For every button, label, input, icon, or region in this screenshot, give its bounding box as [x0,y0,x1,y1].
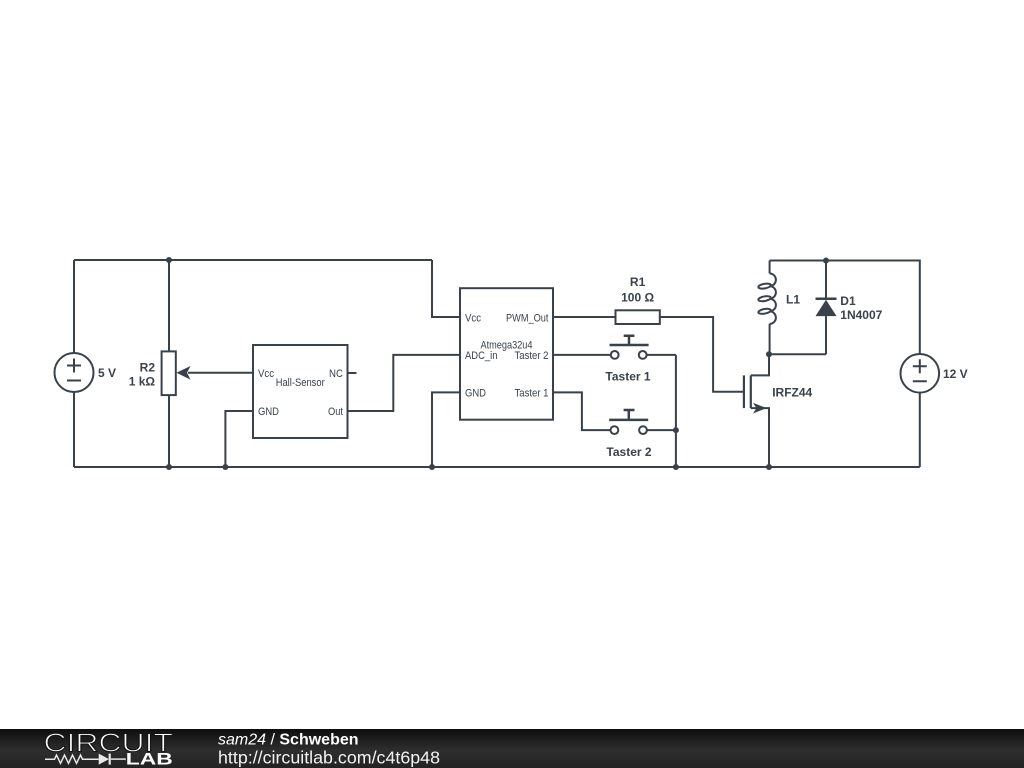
svg-text:Taster 2: Taster 2 [606,445,651,459]
logo resistor zigzag and diode [45,754,126,765]
wire 12V bottom [919,393,921,467]
svg-text:12 V: 12 V [943,367,968,381]
svg-text:R2: R2 [140,361,156,375]
svg-text:LAB: LAB [126,751,173,768]
svg-text:Taster 1: Taster 1 [515,387,549,399]
wire left vertical (5V top to top rail) [73,260,75,353]
svg-text:GND: GND [465,387,486,399]
wire R2 top [168,260,170,351]
svg-text:Taster 2: Taster 2 [515,350,549,362]
wire 5V bottom [73,392,75,467]
svg-text:L1: L1 [786,293,800,307]
node junction R2/bottom [166,464,172,470]
svg-text:GND: GND [258,406,279,418]
pin NC stub [348,372,357,374]
wire drain to diode bottom [769,353,826,355]
svg-text:Vcc: Vcc [465,312,481,324]
wire Atmega Taster1 pin to button 2 [553,392,611,430]
wire R2 bottom [168,395,170,467]
svg-text:Taster 1: Taster 1 [605,370,650,384]
svg-text:PWM_Out: PWM_Out [506,312,549,324]
switch SW2 Taster 2 [609,410,648,434]
wire buttons vertical to bottom rail [675,355,677,467]
wire top rail left [74,259,432,261]
transistor Q1 IRFZ44 MOSFET [744,354,769,467]
wire R1 to MOSFET gate [660,317,743,392]
svg-text:5 V: 5 V [98,366,116,380]
inductor L1 [758,261,776,355]
node junction AtmegaGND/bottom [429,464,435,470]
svg-text:NC: NC [329,368,343,380]
voltage source V2 12 V [901,354,940,393]
svg-text:R1: R1 [630,275,646,289]
wire Atmega Taster2 pin to button [553,354,611,356]
node junction drain [766,351,772,357]
node junction HallGND/bottom [222,464,228,470]
wire Taster1 right to vertical [647,354,676,356]
svg-text:1 kΩ: 1 kΩ [129,375,156,389]
node junction source/bottom rail [766,464,772,470]
svg-text:100 Ω: 100 Ω [621,290,654,304]
node junction taster2/vertical [673,427,679,433]
svg-text:IRFZ44: IRFZ44 [772,386,812,400]
wire Hall Out to Atmega ADC_in [348,355,461,411]
svg-text:sam24 / Schweben: sam24 / Schweben [218,732,359,749]
svg-text:http://circuitlab.com/c4t6p48: http://circuitlab.com/c4t6p48 [218,748,440,768]
node junction diode top [823,258,829,264]
diode D1 1N4007 [816,261,837,355]
resistor R2 body (potentiometer) [162,351,176,395]
svg-text:Out: Out [328,406,343,418]
footer bar [0,729,1024,768]
wire Atmega GND to bottom rail [432,392,460,467]
potentiometer wiper arrow and wire to Hall Vcc [176,366,253,380]
wire bottom rail [74,466,920,468]
wire top rail right [770,261,920,354]
Hall-Sensor box U2 [253,345,348,438]
wire down to Atmega Vcc [432,260,460,317]
voltage source V1 5 V [55,353,94,392]
svg-text:D1: D1 [840,294,856,308]
wire Taster2 right to vertical [647,429,676,431]
node junction R2 top [166,257,172,263]
switch SW1 Taster 1 [610,336,649,359]
Atmega32u4 box U1 [460,288,553,420]
svg-text:ADC_in: ADC_in [465,350,498,362]
node junction vertical/bottom rail [673,464,679,470]
svg-text:Hall-Sensor: Hall-Sensor [276,377,325,389]
svg-text:Vcc: Vcc [258,368,274,380]
svg-text:1N4007: 1N4007 [840,308,882,322]
wire Hall GND to bottom rail [225,411,253,467]
resistor R1 body [616,310,660,324]
wire PWM_Out to R1 [553,316,616,318]
